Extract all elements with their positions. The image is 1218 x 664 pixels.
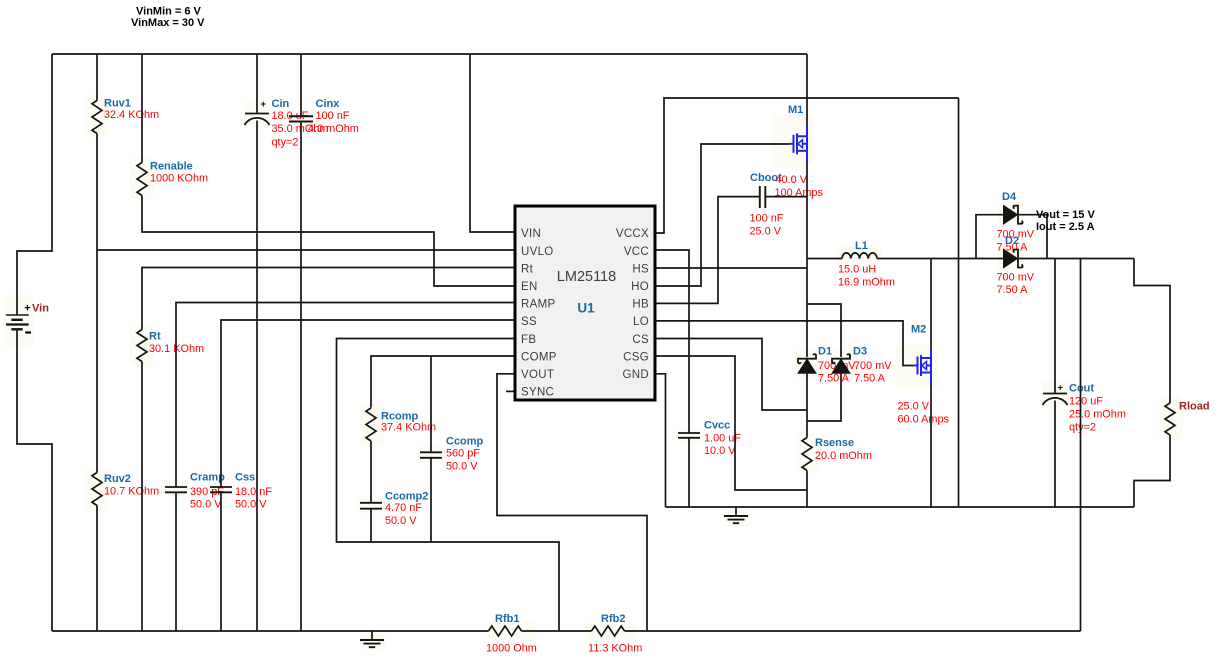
wire Ccomp bottom	[430, 458, 432, 542]
svg-text:U1: U1	[577, 301, 595, 316]
label Rfb1 value	[486, 643, 537, 655]
label Css	[235, 472, 255, 484]
wire Rload top jog	[1134, 259, 1170, 404]
wire Cin top	[256, 54, 258, 114]
wire VCCX net column	[958, 98, 960, 507]
capacitor Cinx	[289, 116, 313, 121]
wire D4 branch left	[976, 215, 1004, 259]
svg-text:15.0 uH: 15.0 uH	[838, 264, 876, 276]
label Cboot rating1	[776, 174, 808, 186]
svg-text:18.0 nF: 18.0 nF	[235, 486, 272, 498]
resistor Rfb1	[489, 626, 522, 636]
wire HS	[655, 267, 807, 269]
wire Cout top	[1054, 259, 1056, 394]
svg-text:25.0 mOhm: 25.0 mOhm	[1069, 408, 1126, 420]
svg-text:qty=2: qty=2	[272, 137, 299, 149]
wire bottom ground bus left	[52, 630, 489, 632]
label Cramp value2	[190, 499, 222, 511]
svg-text:Css: Css	[235, 472, 255, 484]
wire Ruv2 bottom	[96, 506, 98, 632]
resistor Rfb2	[592, 626, 625, 636]
svg-text:32.4 KOhm: 32.4 KOhm	[104, 109, 159, 121]
label D4 value1	[997, 228, 1035, 240]
svg-text:COMP: COMP	[521, 351, 557, 363]
svg-text:D3: D3	[853, 346, 867, 358]
svg-text:SYNC: SYNC	[521, 387, 554, 399]
diode D4	[1004, 206, 1023, 224]
svg-text:700 mV: 700 mV	[854, 360, 892, 372]
svg-text:HB: HB	[632, 299, 649, 311]
transistor M1	[789, 126, 807, 162]
svg-text:LM25118: LM25118	[557, 269, 616, 285]
capacitor Cboot	[760, 186, 766, 208]
wire VCC jog	[655, 250, 689, 433]
svg-text:HS: HS	[632, 263, 649, 275]
label Cin plus	[261, 99, 267, 110]
label Ccomp	[446, 436, 484, 448]
ground symbol bottom	[360, 631, 384, 647]
wire Rcomp-Ccomp2	[370, 441, 372, 503]
resistor Rsense	[802, 438, 812, 471]
label Cvcc value1	[704, 433, 741, 445]
label Cboot	[750, 172, 782, 184]
label Cin value3	[272, 137, 299, 149]
svg-text:CS: CS	[632, 334, 649, 346]
wire CSG jog	[655, 356, 807, 490]
svg-text:7.50 A: 7.50 A	[854, 373, 886, 385]
label Cin	[272, 98, 290, 110]
svg-text:Vin: Vin	[32, 303, 49, 315]
label Cramp	[190, 472, 225, 484]
wire Cvcc bottom	[688, 438, 690, 507]
label D4	[1002, 191, 1017, 203]
label Ccomp2	[385, 490, 428, 502]
label Ccomp value2	[446, 460, 478, 472]
label Rcomp	[381, 411, 419, 423]
svg-text:+: +	[1058, 383, 1064, 394]
wire battery negative jog	[17, 330, 52, 631]
label Renable	[150, 161, 193, 173]
label M1	[788, 104, 803, 116]
wire Ruv1 top	[96, 54, 98, 101]
capacitor Css	[210, 487, 232, 492]
svg-text:M2: M2	[911, 324, 926, 336]
wire power ground bus	[666, 506, 1135, 508]
label Cout	[1069, 383, 1094, 395]
label Cramp value1	[190, 486, 224, 498]
svg-text:Ruv2: Ruv2	[104, 473, 131, 485]
wire CS jog	[655, 339, 807, 411]
svg-text:L1: L1	[855, 240, 868, 252]
wire feedback ground column	[1080, 259, 1082, 632]
svg-text:M1: M1	[788, 104, 803, 116]
svg-text:1000 Ohm: 1000 Ohm	[486, 643, 537, 655]
svg-text:20.0 mOhm: 20.0 mOhm	[815, 450, 872, 462]
wire COMP	[371, 356, 515, 408]
svg-text:25.0 V: 25.0 V	[750, 226, 782, 238]
wire Rt pin	[142, 268, 515, 330]
resistor Rload	[1165, 403, 1175, 435]
svg-text:25.0 V: 25.0 V	[898, 401, 930, 413]
label Rload	[1179, 401, 1210, 413]
wire Rt bottom	[141, 362, 143, 632]
wire FB	[337, 339, 560, 632]
pin labels right VCCX VCC HS HO HB LO CS CSG GND	[616, 228, 649, 381]
svg-text:4.0 mOhm: 4.0 mOhm	[308, 123, 359, 135]
label Cout value1	[1069, 395, 1103, 407]
svg-text:D2: D2	[1005, 235, 1019, 247]
capacitor Cramp	[165, 487, 187, 492]
label Ruv1	[104, 98, 131, 110]
svg-text:UVLO: UVLO	[521, 246, 554, 258]
label L1 value1	[838, 264, 876, 276]
wire Ruv1-UVLO-Ruv2	[96, 134, 98, 473]
svg-text:GND: GND	[623, 369, 649, 381]
svg-text:Rfb2: Rfb2	[601, 613, 625, 625]
label D4 value2	[997, 241, 1029, 253]
svg-text:60.0 Amps: 60.0 Amps	[898, 414, 950, 426]
label D2	[1005, 235, 1019, 247]
wire Css bottom	[220, 492, 222, 631]
inductor L1	[842, 253, 877, 259]
svg-text:700 mV: 700 mV	[997, 272, 1035, 284]
svg-text:+: +	[261, 99, 267, 110]
label D3 value2	[854, 373, 886, 385]
wire HO riser	[655, 144, 789, 286]
svg-text:50.0 V: 50.0 V	[385, 515, 417, 527]
svg-text:Cout: Cout	[1069, 383, 1094, 395]
label VinMin annotation	[136, 6, 202, 18]
wire Ccomp top	[430, 356, 432, 452]
wire Renable to EN jog	[142, 196, 515, 287]
label D3	[853, 346, 867, 358]
svg-text:VOUT: VOUT	[521, 369, 554, 381]
svg-text:VIN: VIN	[521, 228, 541, 240]
label Rfb2	[601, 613, 625, 625]
wire L1 to D2	[877, 258, 1004, 260]
wire bus Rfb1-Rfb2	[522, 630, 592, 632]
label D3 value1	[854, 360, 892, 372]
wire SYNC stub	[506, 390, 515, 392]
svg-text:Ccomp: Ccomp	[446, 436, 484, 448]
label Ccomp value1	[446, 447, 480, 459]
svg-text:Cin: Cin	[272, 98, 290, 110]
label Ruv2 value	[104, 486, 159, 498]
svg-text:4.70 nF: 4.70 nF	[385, 502, 422, 514]
svg-text:VinMax = 30 V: VinMax = 30 V	[131, 17, 205, 29]
label Rfb2 value	[588, 643, 642, 655]
wire Cboot right	[765, 196, 807, 198]
svg-text:FB: FB	[521, 334, 536, 346]
label VinMax annotation	[131, 17, 205, 29]
svg-text:16.9 mOhm: 16.9 mOhm	[838, 277, 895, 289]
svg-text:Renable: Renable	[150, 161, 193, 173]
ground symbol power bus	[724, 507, 748, 523]
wire M1 source to node	[806, 162, 808, 358]
label Vin	[32, 303, 49, 315]
label Rsense	[815, 437, 854, 449]
svg-text:7.50 A: 7.50 A	[997, 284, 1029, 296]
wire Cramp bottom	[175, 492, 177, 631]
resistor Renable	[137, 163, 147, 196]
svg-text:37.4 KOhm: 37.4 KOhm	[381, 421, 436, 433]
svg-text:1000 KOhm: 1000 KOhm	[150, 172, 208, 184]
svg-text:Rsense: Rsense	[815, 437, 854, 449]
wire Cinx top	[300, 54, 302, 116]
capacitor Ccomp	[420, 452, 442, 458]
label M2 value2	[898, 414, 950, 426]
svg-text:Vout = 15 V: Vout = 15 V	[1036, 209, 1095, 221]
svg-text:D4: D4	[1002, 191, 1017, 203]
wire GND jog	[655, 374, 666, 507]
wire Cin bottom	[256, 121, 258, 632]
svg-text:560 pF: 560 pF	[446, 447, 480, 459]
svg-text:Rt: Rt	[521, 263, 534, 275]
wire VIN riser	[470, 54, 515, 232]
svg-text:100 nF: 100 nF	[316, 110, 350, 122]
wire M1 drain from rail	[806, 54, 808, 126]
svg-text:CSG: CSG	[623, 351, 649, 363]
wire Ccomp2 bottom	[370, 509, 372, 542]
wire bottom ground bus right	[625, 630, 1081, 632]
wire D1 anode down	[806, 373, 808, 438]
wire LO	[655, 321, 913, 366]
label Rt	[149, 331, 161, 343]
svg-text:RAMP: RAMP	[521, 299, 555, 311]
svg-text:7.50 A: 7.50 A	[818, 373, 850, 385]
svg-text:10.0 V: 10.0 V	[704, 445, 736, 457]
wire D3 cathode jog	[807, 304, 841, 357]
svg-text:Cramp: Cramp	[190, 472, 225, 484]
wire SS	[221, 320, 515, 487]
label Rcomp value	[381, 421, 436, 433]
svg-text:10.7 KOhm: 10.7 KOhm	[104, 486, 159, 498]
battery V1 Vin source	[6, 315, 29, 329]
label Ccomp2 value1	[385, 502, 422, 514]
wire Cinx bottom	[300, 122, 302, 632]
svg-text:EN: EN	[521, 281, 538, 293]
diode D3	[832, 354, 850, 373]
label M2	[911, 324, 926, 336]
wire M2 drain	[930, 259, 932, 349]
svg-text:Ruv1: Ruv1	[104, 98, 131, 110]
wire M2 source	[930, 383, 932, 507]
svg-text:Cvcc: Cvcc	[704, 420, 730, 432]
wire D3 anode jog	[807, 373, 841, 421]
svg-text:Rt: Rt	[149, 331, 161, 343]
label Cvcc value2	[704, 445, 736, 457]
wire UVLO	[97, 249, 515, 251]
label Cboot rating2	[775, 187, 824, 199]
capacitor Cin	[245, 114, 270, 126]
resistor Ruv1	[92, 101, 102, 134]
svg-text:SS: SS	[521, 316, 537, 328]
svg-text:D1: D1	[818, 346, 832, 358]
svg-text:Iout = 2.5 A: Iout = 2.5 A	[1036, 221, 1095, 233]
label Ccomp2 value2	[385, 515, 417, 527]
label Css value2	[235, 499, 267, 511]
capacitor Ccomp2	[360, 503, 382, 509]
label Css value1	[235, 486, 272, 498]
capacitor Cout	[1043, 394, 1068, 406]
battery plus sign	[24, 303, 30, 315]
label Cin value1	[272, 110, 309, 122]
label Cboot value2	[750, 226, 782, 238]
svg-text:VinMin = 6 V: VinMin = 6 V	[136, 6, 202, 18]
label D1 value2	[818, 373, 850, 385]
label LM25118	[557, 269, 616, 285]
svg-text:HO: HO	[631, 281, 649, 293]
label D1 value1	[818, 360, 856, 372]
svg-text:120 uF: 120 uF	[1069, 395, 1103, 407]
wire top Vin rail	[52, 53, 807, 55]
label Ruv1 value	[104, 109, 159, 121]
svg-text:50.0 V: 50.0 V	[446, 460, 478, 472]
wire main switch-output line	[807, 258, 842, 260]
wire D4 branch right	[1019, 215, 1047, 259]
wire Rload bottom jog	[1134, 435, 1170, 507]
label Cout plus	[1058, 383, 1064, 394]
wire VOUT	[497, 374, 647, 631]
label Cinx value2	[308, 123, 359, 135]
svg-text:+: +	[24, 303, 30, 315]
label Cinx value1	[316, 110, 350, 122]
battery minus sign	[25, 331, 31, 333]
wire Renable top	[141, 54, 143, 163]
svg-text:Ccomp2: Ccomp2	[385, 490, 428, 502]
capacitor Cvcc	[678, 433, 700, 438]
svg-text:40.0 V: 40.0 V	[776, 174, 808, 186]
label Cboot value1	[750, 212, 784, 224]
svg-text:VCC: VCC	[624, 246, 649, 258]
svg-text:VCCX: VCCX	[616, 228, 649, 240]
op-amp U1 LM25118 IC body	[515, 206, 655, 400]
pin labels left VIN UVLO Rt EN RAMP SS FB COMP VOUT SYNC	[521, 228, 557, 398]
transistor M2	[913, 348, 931, 384]
resistor Rt	[137, 330, 147, 362]
wire Rsense bottom	[806, 471, 808, 508]
resistor Rcomp	[366, 408, 376, 441]
svg-text:Rfb1: Rfb1	[495, 613, 519, 625]
wire RAMP	[176, 303, 515, 488]
wire Cout bottom	[1054, 401, 1056, 508]
resistor Ruv2	[92, 473, 102, 506]
label U1	[577, 301, 595, 316]
wire battery positive jog	[17, 54, 52, 315]
svg-text:50.0 V: 50.0 V	[235, 499, 267, 511]
label D1	[818, 346, 832, 358]
wire D2 to corner	[1019, 258, 1134, 260]
label Renable value	[150, 172, 208, 184]
label M2 value1	[898, 401, 930, 413]
label Cinx	[316, 98, 341, 110]
label L1 value2	[838, 277, 895, 289]
label Cout value3	[1069, 421, 1096, 433]
svg-text:11.3 KOhm: 11.3 KOhm	[588, 643, 642, 655]
label Rt value	[149, 343, 204, 355]
diode D1	[798, 354, 816, 373]
diode D2	[1004, 249, 1023, 267]
svg-text:qty=2: qty=2	[1069, 421, 1096, 433]
label D2 value1	[997, 272, 1035, 284]
svg-text:Rload: Rload	[1179, 401, 1210, 413]
label Rsense value	[815, 450, 872, 462]
label Iout annotation	[1036, 221, 1095, 233]
wire VCCX riser	[655, 98, 959, 233]
label Cout value2	[1069, 408, 1126, 420]
wire HB riser	[655, 197, 759, 304]
svg-text:100 nF: 100 nF	[750, 212, 784, 224]
label Cin value2	[272, 123, 329, 135]
svg-text:Cinx: Cinx	[316, 98, 341, 110]
label Ruv2	[104, 473, 131, 485]
label Cvcc	[704, 420, 730, 432]
label Rfb1	[495, 613, 519, 625]
svg-text:LO: LO	[633, 316, 649, 328]
label D2 value2	[997, 284, 1029, 296]
svg-text:50.0 V: 50.0 V	[190, 499, 222, 511]
label L1	[855, 240, 868, 252]
label Vout annotation	[1036, 209, 1095, 221]
